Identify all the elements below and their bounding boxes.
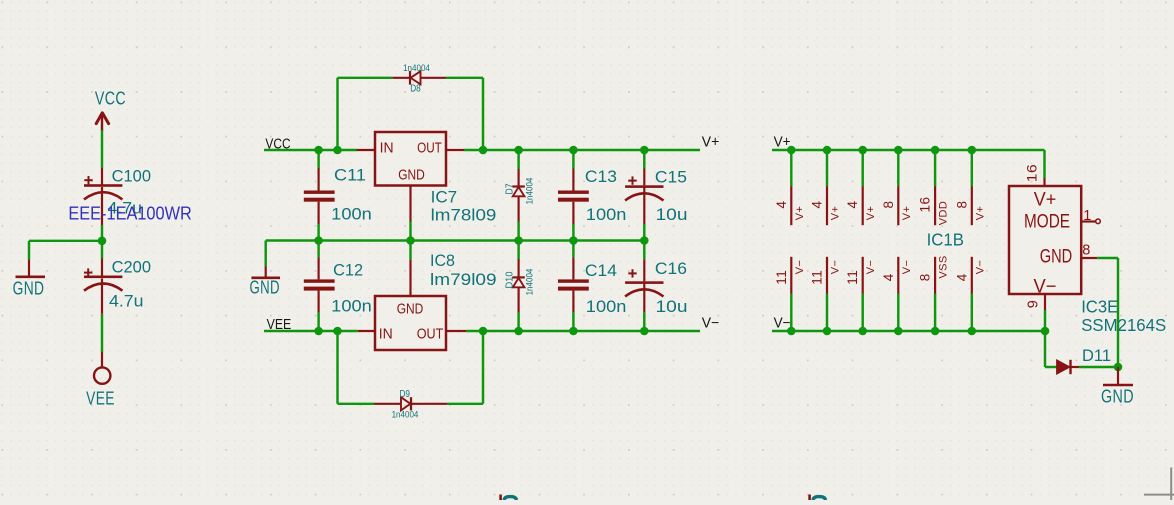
svg-text:10u: 10u	[656, 205, 688, 224]
svg-text:1n4004: 1n4004	[525, 269, 536, 296]
node junction V+ stub 6	[968, 146, 977, 155]
svg-text:GND: GND	[13, 279, 45, 299]
svg-text:4: 4	[881, 273, 896, 281]
wire V+ rail to pin16	[1043, 150, 1045, 178]
wire V- to D11	[1045, 331, 1057, 367]
capacitor C12	[304, 241, 372, 332]
wire V+ rail middle	[483, 149, 700, 151]
wire C200 to VEE	[101, 314, 103, 352]
diode D10 1n4004	[505, 241, 536, 332]
node junction D11-GND	[1114, 363, 1123, 372]
svg-text:V+: V+	[1034, 190, 1057, 211]
capacitor C14	[558, 241, 626, 332]
power symbol GND (right)	[1101, 367, 1134, 407]
pin 11/V- IC1 bottom stub 2	[810, 257, 842, 331]
wire junction to C200	[101, 241, 103, 259]
capacitor C15	[625, 150, 687, 241]
svg-text:D10: D10	[505, 271, 516, 288]
pin 9 IC3E	[1026, 294, 1046, 310]
svg-text:IN: IN	[379, 327, 393, 343]
power symbol VCC (left)	[95, 89, 126, 132]
pin 8 GND IC3E	[1081, 243, 1097, 259]
label IC1B	[927, 230, 964, 250]
wire GND IC8 to mid rail	[409, 241, 411, 260]
svg-text:V+: V+	[865, 206, 877, 221]
svg-text:V−: V−	[901, 260, 913, 275]
pin 8/V+ IC1 top stub 4	[881, 150, 913, 225]
svg-text:C12: C12	[333, 261, 363, 280]
svg-text:10u: 10u	[656, 297, 688, 316]
node junction V- stub 1	[787, 327, 796, 336]
regulator IC7 box	[375, 132, 446, 186]
pin 16 IC3E	[1024, 164, 1045, 186]
svg-text:1n4004: 1n4004	[403, 63, 430, 74]
svg-text:C15: C15	[655, 168, 687, 187]
node junction V+-C13	[569, 146, 578, 155]
capacitor C13	[558, 150, 626, 241]
svg-text:V+: V+	[901, 206, 913, 221]
node junction mid-C11	[314, 236, 323, 245]
wire V- rail middle	[483, 330, 700, 332]
svg-text:4: 4	[845, 200, 860, 208]
wire D9 loop down-left	[338, 331, 375, 404]
wire V+ rail right	[772, 149, 1045, 151]
node junction V- stub 3	[858, 327, 867, 336]
wire junction to GND branch	[29, 241, 102, 260]
wire D11 to GND node	[1079, 366, 1118, 368]
node junction OUT IC8	[479, 327, 488, 336]
svg-text:4: 4	[774, 200, 789, 208]
pin IN IC7	[357, 149, 376, 151]
svg-text:GND: GND	[397, 302, 424, 318]
svg-text:8: 8	[881, 200, 896, 208]
svg-text:GND: GND	[1101, 387, 1134, 407]
node junction mid-D7	[514, 236, 523, 245]
node junction VCC-C11	[314, 146, 323, 155]
svg-text:lm78l09: lm78l09	[431, 206, 497, 225]
node junction V- stub 5	[931, 327, 940, 336]
svg-text:V−: V−	[702, 316, 720, 332]
sheet border corner	[1144, 468, 1174, 501]
pin 4/V+ IC1 top stub 1	[774, 150, 806, 225]
pin OUT IC8	[446, 330, 466, 332]
svg-text:4.7u: 4.7u	[109, 292, 144, 311]
svg-text:16: 16	[918, 196, 933, 212]
svg-text:4: 4	[810, 200, 825, 208]
power symbol VEE (left)	[86, 352, 115, 409]
power symbol GND (middle)	[250, 266, 281, 297]
label V+ middle	[702, 135, 720, 151]
svg-text:100n: 100n	[586, 205, 627, 224]
op-amp IC3E box	[1009, 186, 1081, 298]
label SSM2164S	[1081, 315, 1166, 335]
svg-text:V+: V+	[830, 206, 842, 221]
node junction V- IC3E	[1041, 327, 1050, 336]
svg-text:D8: D8	[410, 84, 421, 95]
svg-text:C13: C13	[585, 167, 617, 186]
svg-text:16: 16	[1024, 164, 1040, 183]
svg-text:GND: GND	[398, 168, 425, 184]
pin 1 MODE IC3E	[1081, 208, 1100, 224]
wire D9 loop right-up	[447, 331, 483, 404]
svg-text:V−: V−	[830, 260, 842, 275]
svg-text:OUT: OUT	[417, 327, 444, 343]
pin GND IC8	[409, 259, 411, 296]
node junction V+ stub 4	[894, 146, 903, 155]
node junction V--C14	[569, 327, 578, 336]
svg-text:SSM2164S: SSM2164S	[1081, 315, 1166, 335]
svg-text:VEE: VEE	[86, 389, 115, 409]
wire mid rail GND drop	[264, 241, 266, 267]
label lm78l09	[431, 206, 497, 225]
svg-text:D11: D11	[1082, 346, 1111, 365]
pin 4/V+ IC1 top stub 2	[810, 150, 842, 225]
svg-text:11: 11	[810, 270, 825, 285]
regulator IC8 box	[375, 296, 446, 350]
svg-text:IC8: IC8	[430, 251, 455, 270]
svg-text:C16: C16	[655, 259, 687, 278]
node junction V- stub 4	[894, 327, 903, 336]
svg-text:IC7: IC7	[431, 188, 458, 207]
svg-text:8: 8	[1082, 243, 1091, 259]
svg-text:11: 11	[845, 270, 860, 285]
wire C100 to junction	[101, 225, 103, 241]
diode D7 1n4004	[505, 150, 536, 241]
wire VCC rail	[264, 149, 357, 151]
pin 4/V- IC1 bottom stub 6	[954, 257, 986, 331]
svg-text:IC1B: IC1B	[927, 230, 964, 250]
diode D11	[1057, 346, 1111, 374]
svg-text:VCC: VCC	[95, 89, 126, 109]
label VEE	[267, 317, 292, 333]
svg-text:VDD: VDD	[938, 201, 950, 225]
node junction VEE-D9	[333, 327, 342, 336]
label V+ right	[774, 135, 791, 151]
wire V- rail right	[772, 330, 1045, 332]
node junction V--D10	[514, 327, 523, 336]
svg-text:4: 4	[954, 273, 969, 281]
node junction OUT IC7	[479, 146, 488, 155]
pin 11/V- IC1 bottom stub 3	[845, 257, 877, 331]
pin 8/VSS IC1 bottom stub 5	[918, 255, 950, 331]
svg-text:1: 1	[1083, 208, 1092, 224]
node junction mid-GND IC7	[406, 236, 415, 245]
svg-text:11: 11	[774, 270, 789, 285]
pin 11/V- IC1 bottom stub 1	[774, 257, 806, 331]
label V- middle	[702, 316, 720, 332]
node junction V- stub 6	[968, 327, 977, 336]
svg-text:V−: V−	[794, 260, 806, 275]
node junction V+-C15	[640, 146, 649, 155]
field text EEE-1EA100WR	[68, 203, 191, 224]
svg-text:V+: V+	[702, 135, 720, 151]
svg-text:V−: V−	[974, 260, 986, 275]
svg-text:9: 9	[1026, 300, 1042, 309]
wire mid rail	[266, 239, 645, 241]
label lm79l09	[430, 270, 497, 289]
diode D8 1n4004	[392, 63, 446, 95]
svg-text:IC3E: IC3E	[1081, 297, 1118, 317]
capacitor C200	[84, 258, 151, 314]
svg-text:8: 8	[918, 273, 933, 281]
pin 8/V+ IC1 top stub 6	[954, 150, 986, 225]
svg-text:1n4004: 1n4004	[525, 178, 536, 205]
label IC8	[430, 251, 455, 270]
capacitor C16	[625, 241, 687, 332]
node junction V+-D7	[514, 146, 523, 155]
svg-text:D7: D7	[505, 183, 516, 194]
svg-text:V+: V+	[974, 206, 986, 221]
node junction V- stub 2	[823, 327, 832, 336]
svg-text:VSS: VSS	[938, 255, 950, 278]
wire GND IC7 to mid rail	[409, 222, 411, 241]
wire pin8 to GND net	[1097, 258, 1118, 367]
wire VCC to C100	[101, 130, 103, 168]
svg-text:8: 8	[954, 200, 969, 208]
svg-text:OUT: OUT	[417, 141, 442, 157]
svg-text:D9: D9	[399, 389, 410, 400]
svg-text:C200: C200	[112, 258, 151, 277]
svg-text:GND: GND	[250, 278, 280, 298]
pin OUT IC7	[446, 149, 464, 151]
svg-text:1n4004: 1n4004	[392, 410, 419, 421]
partial symbol pin (bottom right)	[808, 495, 825, 501]
pin 16/VDD IC1 top stub 5	[918, 150, 950, 225]
svg-text:EEE-1EA100WR: EEE-1EA100WR	[68, 203, 191, 224]
svg-text:lm79l09: lm79l09	[430, 270, 497, 289]
label IC7	[431, 188, 458, 207]
svg-text:C100: C100	[112, 167, 151, 186]
svg-text:V+: V+	[794, 206, 806, 221]
label VCC	[265, 137, 290, 153]
pin GND IC7	[409, 186, 411, 222]
node junction V+ stub 1	[787, 146, 796, 155]
node junction V+ stub 5	[931, 146, 940, 155]
node junction VCC-D8	[333, 146, 342, 155]
capacitor C11	[304, 150, 372, 241]
node junction V+ stub 2	[823, 146, 832, 155]
pin 4/V+ IC1 top stub 3	[845, 150, 877, 225]
wire OUT IC8 to V- rail	[466, 330, 483, 332]
svg-text:GND: GND	[1040, 247, 1073, 268]
svg-text:IN: IN	[380, 141, 394, 157]
partial symbol pin (bottom middle)	[499, 495, 516, 501]
label V- right	[774, 316, 791, 332]
svg-text:100n: 100n	[331, 205, 372, 224]
svg-text:100n: 100n	[331, 297, 372, 316]
node junction VEE-C12	[314, 327, 323, 336]
wire pin9 to V- rail	[1044, 310, 1046, 331]
node junction mid-C13	[569, 236, 578, 245]
node junction mid-C15-C16	[640, 236, 649, 245]
pin IN IC8	[358, 330, 375, 332]
svg-text:100n: 100n	[586, 297, 627, 316]
wire VEE rail	[264, 330, 358, 332]
svg-text:V−: V−	[865, 260, 877, 275]
svg-text:C11: C11	[334, 166, 366, 185]
node junction left	[98, 237, 107, 246]
svg-text:MODE: MODE	[1024, 212, 1070, 233]
node junction V--C16	[640, 327, 649, 336]
power symbol GND (left)	[13, 259, 45, 298]
wire D8 loop up-left	[338, 78, 393, 150]
node junction V+ stub 3	[858, 146, 867, 155]
pin 4/V- IC1 bottom stub 4	[881, 257, 913, 331]
diode D9 1n4004	[374, 389, 447, 421]
wire OUT IC7 to V+ rail	[464, 149, 483, 151]
capacitor C100	[84, 167, 151, 226]
label IC3E	[1081, 297, 1118, 317]
svg-text:C14: C14	[585, 261, 617, 280]
wire D8 loop right-down	[446, 78, 483, 150]
